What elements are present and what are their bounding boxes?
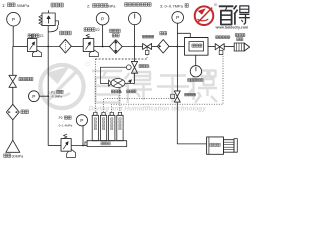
label valve V1 xyxy=(142,35,153,38)
wire filter to source xyxy=(12,120,14,140)
wire main line seg5 xyxy=(122,46,142,48)
wire main line seg4 xyxy=(94,46,110,48)
manifold base xyxy=(87,141,127,147)
exhaust muffler xyxy=(234,43,244,51)
solenoid valve SV2 xyxy=(100,115,106,140)
control line c3 xyxy=(112,55,223,112)
air source symbol xyxy=(6,140,20,152)
svg-text:P: P xyxy=(80,118,83,124)
watermark gray logo circle xyxy=(40,62,89,108)
solenoid valve SV4 xyxy=(117,115,123,140)
label dryer xyxy=(60,31,72,35)
wire switch to filter xyxy=(12,87,14,104)
control line c1 vertical xyxy=(94,59,96,112)
svg-text:30MPa: 30MPa xyxy=(17,3,30,8)
svg-text:Drying and Humidification tech: Drying and Humidification technology xyxy=(89,105,207,112)
wire main line seg2 xyxy=(37,46,60,48)
svg-text:Z1: Z1 xyxy=(40,34,44,38)
wire vac gauge branch xyxy=(39,95,48,97)
svg-text:3: 0~0.7MPa: 3: 0~0.7MPa xyxy=(160,3,184,8)
pilot valve PV2 on sensor line xyxy=(134,47,136,62)
output gauge P2 xyxy=(76,115,87,126)
svg-text:P: P xyxy=(176,15,179,21)
node junction gauge2 xyxy=(102,46,104,48)
wire gauge P0 stem xyxy=(12,26,14,47)
wire tank top branch xyxy=(177,33,190,37)
logo registered mark xyxy=(214,3,217,6)
wire gauge P2 stem xyxy=(82,126,84,146)
svg-text:-0.1MPa: -0.1MPa xyxy=(51,95,62,99)
wire gauge sensor stem xyxy=(134,25,136,47)
wire main line seg9 xyxy=(224,46,234,48)
logo red circle emblem xyxy=(195,6,214,25)
label tank xyxy=(192,44,202,47)
label air switch xyxy=(19,77,33,80)
wire safety valve drop xyxy=(47,26,49,47)
pressure gauge P0 xyxy=(7,12,21,26)
wire gauge P3 stem and vacuum column upper xyxy=(176,23,178,91)
label surge xyxy=(160,32,167,35)
solenoid valve SV3 xyxy=(109,115,115,140)
vacuum pump fins xyxy=(224,140,235,153)
air tank T1 xyxy=(185,38,209,56)
wire main line seg1 xyxy=(13,46,28,48)
label manifold xyxy=(101,142,110,145)
label valve V2 xyxy=(216,36,230,39)
node junction P1 vac gauge xyxy=(47,95,49,97)
label regulator Z1 xyxy=(28,34,39,38)
svg-text:MPa: MPa xyxy=(108,5,117,9)
regulator Z2 xyxy=(83,39,94,52)
wire tank bottom stem xyxy=(195,55,197,65)
wire below pilot valve xyxy=(125,73,135,83)
label quick exhaust xyxy=(127,90,136,93)
valve air switch xyxy=(9,75,17,87)
control line c2 xyxy=(104,99,171,113)
label digital pressure sensor xyxy=(125,3,152,7)
ball valve V2 xyxy=(215,44,224,50)
wire main line seg3 xyxy=(71,46,83,48)
label pilot valve 1 xyxy=(111,90,120,93)
label pilot valve PV2 xyxy=(139,65,148,68)
regulator Z1 xyxy=(28,39,37,52)
control line c4 xyxy=(119,88,121,113)
svg-text:P: P xyxy=(12,17,15,23)
wire main line seg7 xyxy=(169,46,185,48)
svg-text:P: P xyxy=(32,94,35,100)
node junction P2 gauge xyxy=(82,145,84,147)
surge diamond xyxy=(157,40,169,54)
wire left vertical down xyxy=(12,47,14,76)
dryer D1 xyxy=(60,39,72,53)
wire main line seg6 xyxy=(152,46,158,48)
wire pilot actuator loop xyxy=(100,67,126,83)
svg-text:2:: 2: xyxy=(87,4,90,9)
vacuum pump xyxy=(207,137,224,154)
solenoid valve SV1 xyxy=(92,115,98,140)
pressure gauge P3 xyxy=(172,12,184,24)
svg-text:Z2: Z2 xyxy=(96,28,100,32)
svg-text:0~1.4MPa: 0~1.4MPa xyxy=(59,123,73,127)
node junction vacuum column xyxy=(176,46,178,48)
tank pressure gauge xyxy=(190,66,201,77)
label source 30MPa xyxy=(4,154,11,158)
regen dryer D2 xyxy=(109,40,122,54)
label muffler xyxy=(235,34,245,37)
ball valve V1 xyxy=(143,44,152,50)
svg-text:www.baidedry.com: www.baidedry.com xyxy=(215,25,249,29)
wire vacuum column lower xyxy=(177,102,206,144)
vacuum gauge P1 xyxy=(29,91,40,102)
pressure sensor gauge xyxy=(129,12,141,24)
regulator Z3 bottom xyxy=(61,139,71,152)
wire vertical branch x48 xyxy=(47,47,49,146)
pressure gauge P1 outlet xyxy=(96,12,109,25)
safety valve SV1 xyxy=(42,13,55,26)
safety valve pilot curve xyxy=(48,25,57,32)
wire bottom line seg2 xyxy=(71,145,87,147)
quick exhaust valve QV xyxy=(111,79,125,88)
label vacuum valve xyxy=(185,93,196,96)
wire main line seg8 xyxy=(208,46,215,48)
wire bottom line seg1 xyxy=(48,145,61,147)
watermark big gray characters xyxy=(92,71,217,104)
label tank pressure sensor xyxy=(188,79,203,82)
regulator Z2 pilot loop xyxy=(89,50,98,57)
label regen dryer xyxy=(110,29,121,32)
wire gauge P1 stem xyxy=(102,25,104,47)
control line c1 horizontal dashed xyxy=(95,58,147,60)
label regulator Z2 xyxy=(84,28,95,32)
svg-text:1:: 1: xyxy=(2,3,6,8)
regulator Z3 pilot loop xyxy=(67,149,76,157)
node junction gauge3 xyxy=(134,46,136,48)
svg-text:30MPa: 30MPa xyxy=(12,154,25,158)
control line valve V1 tick xyxy=(146,55,148,60)
svg-text:P2: P2 xyxy=(59,116,63,120)
vacuum valve PV3 xyxy=(174,91,180,102)
svg-text:P: P xyxy=(101,16,104,22)
logo characters bai de (drawn) xyxy=(219,5,250,24)
filter F1 xyxy=(6,104,19,120)
label safety valve xyxy=(51,3,63,7)
label filter xyxy=(21,110,29,114)
regulator Z1 pilot loop xyxy=(33,50,42,57)
